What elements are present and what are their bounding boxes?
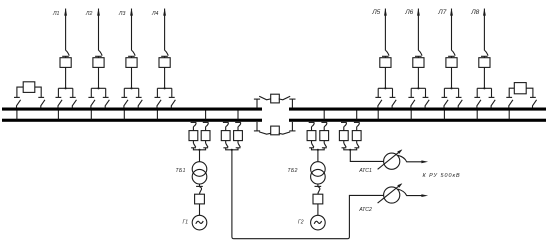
busbar A (upper bus, right section) — [289, 108, 546, 111]
wire Q7 down to bus disconnector branch — [451, 67, 453, 88]
disconnector QS8.2 of Л8 (to upper bus A, right leg) — [489, 88, 496, 107]
autotransformer АТС1 (regulating, circle with arrow) — [378, 149, 403, 169]
disconnector below breaker Q21b — [322, 141, 327, 148]
generator breaker of Г2 — [313, 194, 323, 204]
svg-text:Л5: Л5 — [371, 9, 380, 16]
breaker Q21a of unit ТБ2/Г2 — [307, 131, 316, 141]
junction node of Л1 branch — [65, 87, 67, 89]
disconnector Q21b of unit ТБ2/Г2 (upper bus A side, below bus) — [321, 122, 327, 130]
disconnector of QA1 (left) (upper bus side) — [38, 97, 45, 107]
disconnector QS5.2 of Л5 (to upper bus A, right leg) — [390, 88, 397, 107]
svg-text:АТС1: АТС1 — [358, 168, 372, 174]
junction node of line to АТС1 — [349, 149, 351, 151]
wire QA1 (left) left leg through upper bus to lower bus — [16, 111, 18, 120]
breaker Q21b of unit ТБ2/Г2 — [320, 131, 329, 141]
disconnector QS4.1 of Л4 (to lower bus B, left leg) — [155, 88, 162, 107]
wire АТС2 output with arrow to 500kV switchgear — [398, 189, 428, 197]
disconnector blade and wire of QB2 (right) — [279, 132, 291, 134]
junction node of line to АТС2 — [231, 149, 233, 151]
wire Q22b to merge bar — [350, 148, 357, 150]
disconnector QS8.1 of Л8 (to lower bus B, left leg) — [474, 88, 481, 107]
disconnector QS4.2 of Л4 (to upper bus A, right leg) — [169, 88, 176, 107]
svg-text:АТС2: АТС2 — [358, 207, 372, 213]
transformer ТБ2 (two-winding, block transformer) — [311, 162, 326, 184]
disconnector QS1.3 (line side of Л1) — [62, 50, 69, 57]
disconnector QS1.1 of Л1 (to lower bus B, left leg) — [56, 88, 63, 107]
disconnector QS4.3 (line side of Л4) — [161, 50, 168, 57]
generator Г2 (synchronous machine) — [311, 215, 326, 230]
wire Q12b leg to upper bus A (crossing lower bus) — [237, 111, 239, 120]
disconnector contact of QB1 (left upper bus side) — [254, 99, 260, 108]
transformer ТБ1 (two-winding, block transformer) — [192, 162, 207, 184]
disconnector QS2.1 of Л2 (to lower bus B, left leg) — [88, 88, 95, 107]
disconnector contact of QB1 (right upper bus side) — [289, 99, 295, 108]
wire Q22a to merge bar — [344, 148, 350, 150]
junction node of Л4 branch — [164, 87, 166, 89]
breaker Q6 of line Л6 — [413, 58, 424, 68]
junction node of Л5 branch — [384, 87, 386, 89]
wire branch bar of Л7 — [444, 87, 458, 89]
disconnector between ТБ1 and generator breaker — [196, 184, 203, 194]
disconnector of QA2 (right) (upper bus side) — [530, 97, 537, 107]
wire АТС1 output with arrow to 500kV switchgear — [398, 155, 428, 163]
disconnector of QA2 (right) (lower bus side) — [506, 97, 513, 107]
wire Q12b to merge bar — [232, 148, 238, 150]
disconnector QS3.1 of Л3 (to lower bus B, left leg) — [121, 88, 128, 107]
svg-text:Л8: Л8 — [470, 9, 479, 16]
line Л7 outgoing arrow — [450, 8, 453, 50]
wire QA2 (right) left leg through upper bus to lower bus — [508, 111, 510, 120]
disconnector QS7.2 of Л7 (to upper bus A, right leg) — [456, 88, 463, 107]
bus coupler breaker QA1 (left) — [23, 82, 35, 93]
svg-text:Г1: Г1 — [183, 219, 189, 225]
busbar A (upper bus, left section) — [2, 108, 262, 111]
disconnector Q11a of unit ТБ1/Г1 (lower bus B side, below bus) — [191, 122, 197, 130]
disconnector QS7.3 (line side of Л7) — [448, 50, 455, 57]
disconnector contact of QB2 (right lower bus side) — [289, 122, 295, 131]
wire Л7 left leg through upper bus to lower bus — [443, 111, 445, 120]
junction node of Л7 branch — [450, 87, 452, 89]
svg-text:ТБ2: ТБ2 — [288, 168, 298, 174]
line Л5 outgoing arrow — [384, 8, 387, 50]
wire QA2 (right) right arm — [526, 88, 533, 97]
junction node of unit ТБ2/Г2 — [317, 149, 319, 151]
breaker Q5 of line Л5 — [380, 58, 391, 68]
wire Q4 down to bus disconnector branch — [164, 67, 166, 88]
disconnector of QA1 (left) (lower bus side) — [14, 97, 21, 107]
breaker Q1 of line Л1 — [60, 58, 71, 68]
breaker Q22b of line to АТС1 — [352, 131, 361, 141]
disconnector below breaker Q22b — [354, 141, 359, 148]
wire unit Q22 to autotransformer АТС1 — [350, 150, 383, 162]
line Л1 outgoing arrow — [64, 8, 67, 50]
line Л3 outgoing arrow — [130, 8, 133, 50]
breaker Q3 of line Л3 — [126, 58, 137, 68]
disconnector Q22a of line to АТС1 (lower bus B side, below bus) — [341, 122, 347, 130]
svg-text:К РУ 500кВ: К РУ 500кВ — [423, 173, 461, 179]
junction node of Л3 branch — [130, 87, 132, 89]
wire branch bar of Л2 — [91, 87, 105, 89]
svg-text:Л7: Л7 — [437, 9, 446, 16]
wire Q3 down to bus disconnector branch — [131, 67, 133, 88]
generator breaker of Г1 — [195, 194, 205, 204]
bus tie breaker QB2 (lower bus) — [271, 126, 280, 135]
breaker Q11a of unit ТБ1/Г1 — [189, 131, 198, 141]
junction node of Л6 branch — [417, 87, 419, 89]
breaker Q22a of line to АТС1 — [339, 131, 348, 141]
disconnector QS5.3 (line side of Л5) — [382, 50, 389, 57]
wire breaker to generator Г2 — [317, 204, 319, 215]
wire branch bar of Л5 — [378, 87, 392, 89]
bus tie breaker QB1 (upper bus) — [271, 94, 280, 103]
disconnector QS8.3 (line side of Л8) — [481, 50, 488, 57]
wire Q2 down to bus disconnector branch — [98, 67, 100, 88]
disconnector QS6.3 (line side of Л6) — [415, 50, 422, 57]
wire Q21b to merge bar — [318, 148, 324, 150]
busbar B (lower bus, left section) — [2, 119, 262, 122]
wire Л6 left leg through upper bus to lower bus — [410, 111, 412, 120]
disconnector QS3.3 (line side of Л3) — [128, 50, 135, 57]
disconnector below breaker Q11a — [191, 141, 196, 148]
disconnector QS6.1 of Л6 (to lower bus B, left leg) — [408, 88, 415, 107]
autotransformer АТС2 (regulating, circle with arrow) — [378, 183, 403, 203]
svg-text:Л3: Л3 — [118, 11, 126, 17]
wire Q12a to merge bar — [226, 148, 232, 150]
svg-text:Г2: Г2 — [298, 219, 304, 225]
wire QA2 (right) left arm — [509, 88, 514, 97]
disconnector below breaker Q22a — [342, 141, 347, 148]
wire branch bar of Л1 — [58, 87, 72, 89]
wire branch bar of Л8 — [477, 87, 491, 89]
svg-text:Л1: Л1 — [52, 11, 60, 17]
wire branch bar of Л6 — [411, 87, 425, 89]
generator Г1 (synchronous machine) — [192, 215, 207, 230]
disconnector below breaker Q11b — [203, 141, 208, 148]
wire breaker to generator Г1 — [199, 204, 201, 215]
disconnector contact of QB2 (left lower bus side) — [254, 122, 260, 131]
svg-text:Л4: Л4 — [151, 11, 159, 17]
disconnector Q22b of line to АТС1 (upper bus A side, below bus) — [354, 122, 360, 130]
wire Q11a to merge bar — [193, 148, 199, 150]
bus coupler breaker QA2 (right) — [514, 83, 526, 94]
disconnector QS2.3 (line side of Л2) — [95, 50, 102, 57]
disconnector blade and wire of QB1 (right) — [279, 96, 291, 100]
wire down to transformer ТБ1 — [199, 150, 201, 162]
junction node of Л2 branch — [97, 87, 99, 89]
svg-text:ТБ1: ТБ1 — [176, 168, 186, 174]
line Л2 outgoing arrow — [97, 8, 100, 50]
wire Q8 down to bus disconnector branch — [483, 67, 485, 88]
wire Л5 left leg through upper bus to lower bus — [377, 111, 379, 120]
busbar B (lower bus, right section) — [289, 119, 546, 122]
wire QA1 (left) left arm — [17, 87, 23, 97]
svg-text:Л2: Л2 — [85, 11, 93, 17]
wire Л4 left leg through upper bus to lower bus — [156, 111, 158, 120]
line Л8 outgoing arrow — [483, 8, 486, 50]
breaker Q4 of line Л4 — [159, 58, 170, 68]
wire unit Q12 to autotransformer АТС2 (bottom route) — [232, 150, 384, 239]
wire Q11b to merge bar — [200, 148, 206, 150]
wire Q6 down to bus disconnector branch — [417, 67, 419, 88]
disconnector blade and wire of QB2 (left) — [259, 132, 271, 134]
junction node of Л8 branch — [483, 87, 485, 89]
line Л4 outgoing arrow — [163, 8, 166, 50]
wire QA1 (left) right arm — [35, 87, 41, 97]
wire down to transformer ТБ2 — [317, 150, 319, 162]
line Л6 outgoing arrow — [417, 8, 420, 50]
disconnector between ТБ2 and generator breaker — [315, 184, 322, 194]
breaker Q8 of line Л8 — [479, 58, 490, 68]
breaker Q2 of line Л2 — [93, 58, 104, 68]
wire Q21a to merge bar — [312, 148, 318, 150]
breaker Q12b of line to АТС2 — [234, 131, 243, 141]
svg-text:Л6: Л6 — [404, 9, 413, 16]
wire Q11b leg to upper bus A (crossing lower bus) — [205, 111, 207, 120]
wire Л1 left leg through upper bus to lower bus — [57, 111, 59, 120]
disconnector Q21a of unit ТБ2/Г2 (lower bus B side, below bus) — [309, 122, 315, 130]
disconnector QS3.2 of Л3 (to upper bus A, right leg) — [136, 88, 143, 107]
disconnector blade and wire of QB1 (left) — [259, 96, 271, 100]
breaker Q7 of line Л7 — [446, 58, 457, 68]
junction node of unit ТБ1/Г1 — [198, 149, 200, 151]
disconnector QS7.1 of Л7 (to lower bus B, left leg) — [442, 88, 449, 107]
disconnector below breaker Q12b — [236, 141, 241, 148]
breaker Q11b of unit ТБ1/Г1 — [201, 131, 210, 141]
disconnector QS5.1 of Л5 (to lower bus B, left leg) — [375, 88, 382, 107]
disconnector below breaker Q12a — [223, 141, 228, 148]
wire branch bar of Л3 — [124, 87, 138, 89]
disconnector QS1.2 of Л1 (to upper bus A, right leg) — [70, 88, 77, 107]
wire Q1 down to bus disconnector branch — [65, 67, 67, 88]
breaker Q12a of line to АТС2 — [221, 131, 230, 141]
wire Л8 left leg through upper bus to lower bus — [476, 111, 478, 120]
wire Q5 down to bus disconnector branch — [384, 67, 386, 88]
wire Л3 left leg through upper bus to lower bus — [123, 111, 125, 120]
wire branch bar of Л4 — [157, 87, 171, 89]
disconnector QS2.2 of Л2 (to upper bus A, right leg) — [103, 88, 110, 107]
disconnector Q12b of line to АТС2 (upper bus A side, below bus) — [235, 122, 241, 130]
wire Л2 left leg through upper bus to lower bus — [90, 111, 92, 120]
disconnector Q12a of line to АТС2 (lower bus B side, below bus) — [223, 122, 229, 130]
wire Q22b leg to upper bus A (crossing lower bus) — [356, 111, 358, 120]
disconnector below breaker Q21a — [309, 141, 314, 148]
wire Q21b leg to upper bus A (crossing lower bus) — [323, 111, 325, 120]
disconnector QS6.2 of Л6 (to upper bus A, right leg) — [423, 88, 430, 107]
disconnector Q11b of unit ТБ1/Г1 (upper bus A side, below bus) — [203, 122, 209, 130]
